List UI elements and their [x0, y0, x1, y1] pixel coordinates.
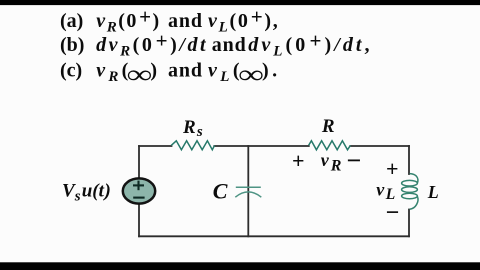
svg-text:dvR(0+)/dt: dvR(0+)/dt [96, 29, 208, 60]
svg-text:(a): (a) [60, 10, 83, 32]
svg-text:−: − [386, 200, 400, 226]
svg-text:(c): (c) [60, 59, 82, 81]
svg-text:(b): (b) [60, 34, 84, 56]
svg-text:R: R [321, 116, 335, 137]
svg-text:and: and [168, 59, 203, 81]
svg-text:L: L [427, 182, 439, 202]
svg-text:∞: ∞ [127, 59, 152, 89]
svg-text:Vsu(t): Vsu(t) [62, 180, 111, 204]
svg-text:and: and [168, 10, 203, 32]
svg-text:vL(∞).: vL(∞). [208, 56, 280, 85]
svg-text:−: − [347, 146, 362, 175]
svg-text:+: + [386, 156, 399, 181]
svg-text:+: + [292, 148, 305, 173]
svg-text:and: and [212, 34, 247, 56]
svg-text:C: C [213, 178, 228, 203]
